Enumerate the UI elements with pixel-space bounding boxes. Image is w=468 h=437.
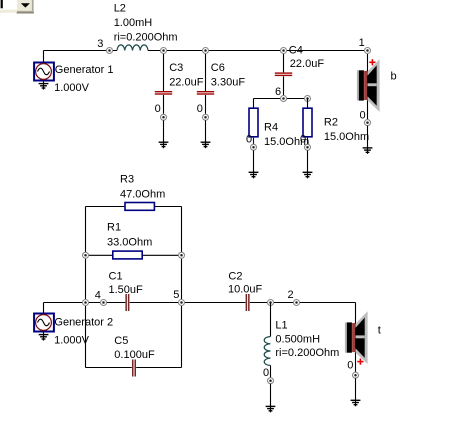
generator 2 (source symbol) [34, 314, 54, 332]
wire bus C1 to C2 [130, 302, 246, 304]
inductor L1 coil [264, 337, 270, 366]
capacitor C1 plates [125, 294, 129, 311]
junction node (R1 left rail) [83, 252, 89, 258]
svg-text:Generator 2: Generator 2 [54, 317, 113, 329]
wire speaker t column [355, 303, 357, 372]
ground (C6) [201, 140, 211, 148]
wire R4 bottom stub [253, 138, 255, 145]
junction node (L1 top) [268, 300, 274, 306]
capacitor C6 plates [197, 91, 214, 95]
ground (speaker b) [363, 146, 373, 154]
node 1 pin circle [365, 48, 371, 54]
wire R2 to ground [307, 150, 309, 172]
wire left rail [85, 207, 87, 368]
ground (generator 2) [39, 332, 49, 340]
svg-text:R4: R4 [264, 122, 278, 134]
speaker t icon [345, 311, 368, 364]
wire main bus right segment [148, 50, 368, 52]
svg-text:1.00mH: 1.00mH [114, 17, 153, 29]
wire C6 bottom lead [205, 95, 207, 114]
wire C3 to ground [163, 120, 165, 142]
svg-text:0: 0 [360, 109, 366, 121]
junction node (C4 / main bus) [281, 48, 287, 54]
resistor R2 body [303, 108, 312, 137]
junction node (C6 / main bus) [203, 48, 209, 54]
wire C3 bottom lead [163, 95, 165, 114]
svg-text:47.0Ohm: 47.0Ohm [120, 188, 165, 200]
wire bus gen2 to C1 [44, 302, 126, 304]
wire C5 right lead [136, 367, 181, 369]
resistor R1 body [113, 251, 142, 259]
wire R2 bottom stub [307, 138, 309, 145]
wire speaker t to ground [355, 378, 357, 400]
wire L1 bottom lead [270, 365, 272, 377]
svg-text:22.0uF: 22.0uF [290, 58, 325, 70]
svg-text:2: 2 [288, 289, 294, 301]
svg-text:0: 0 [155, 103, 161, 115]
capacitor C4 plates [275, 72, 292, 76]
svg-text:4: 4 [95, 290, 101, 302]
svg-text:R2: R2 [324, 117, 338, 129]
node 5 junction circle [179, 300, 185, 306]
junction node (C3 / main bus) [161, 48, 167, 54]
svg-text:0: 0 [263, 367, 269, 379]
svg-text:L1: L1 [275, 319, 287, 331]
svg-text:3: 3 [97, 38, 103, 50]
ground (R4) [249, 170, 259, 178]
capacitor C5 plates [132, 360, 136, 377]
node 0 pin (R2 bottom) [305, 144, 311, 150]
node 0 pin (speaker b bottom) [365, 120, 371, 126]
svg-text:22.0uF: 22.0uF [169, 76, 204, 88]
wire C4 bottom lead [283, 76, 285, 96]
wire L1 to ground [270, 384, 272, 407]
svg-text:1.50uF: 1.50uF [109, 284, 144, 296]
generator 1 (source symbol) [34, 63, 54, 81]
wire main bus left segment [44, 50, 118, 52]
wire R3 left lead [86, 206, 125, 208]
wire speaker b to ground [367, 126, 369, 148]
wire C5 left lead [86, 367, 132, 369]
node 0 pin (R4 bottom) [251, 144, 257, 150]
wire C6 to ground [205, 120, 207, 142]
svg-text:Generator 1: Generator 1 [55, 64, 114, 76]
capacitor C3 plates [155, 91, 172, 95]
svg-text:C2: C2 [228, 271, 242, 283]
resistor R3 body [125, 203, 154, 211]
speaker b icon [357, 59, 380, 112]
svg-text:R3: R3 [120, 174, 134, 186]
wire C6 top lead [205, 51, 207, 92]
svg-text:C5: C5 [114, 335, 128, 347]
svg-text:L2: L2 [114, 3, 126, 15]
wire bus C2 to speaker t [250, 302, 356, 304]
wire C4 top lead [283, 51, 285, 73]
wire speaker b column [367, 51, 369, 120]
svg-text:t: t [378, 324, 381, 336]
svg-text:3.30uF: 3.30uF [211, 76, 246, 88]
svg-text:0: 0 [246, 134, 252, 146]
wire right rail [181, 207, 183, 368]
svg-text:0.500mH: 0.500mH [275, 334, 320, 346]
node 0 pin (C3 bottom) [161, 114, 167, 120]
node 6 junction circle [281, 96, 287, 102]
pin circle (C1 left) [101, 300, 107, 306]
svg-text:15.0Ohm: 15.0Ohm [324, 131, 369, 143]
wire R4 to ground [253, 150, 255, 172]
resistor R4 body [249, 108, 258, 137]
wire R2 top stub [307, 99, 309, 108]
ground (L1) [266, 404, 276, 412]
wire C3 top lead [163, 51, 165, 92]
svg-text:33.0Ohm: 33.0Ohm [107, 236, 152, 248]
svg-text:C6: C6 [211, 62, 225, 74]
wire node-6 row [254, 98, 308, 100]
svg-text:5: 5 [173, 289, 179, 301]
capacitor C2 plates [246, 294, 250, 311]
svg-text:0: 0 [197, 103, 203, 115]
node 4 junction circle [83, 300, 89, 306]
svg-text:1: 1 [359, 37, 365, 49]
svg-text:ri=0.200Ohm: ri=0.200Ohm [275, 347, 339, 359]
svg-text:0: 0 [300, 134, 306, 146]
wire R1 left lead [86, 254, 113, 256]
node 2 pin circle [294, 300, 300, 306]
junction node (R1 right rail) [179, 252, 185, 258]
wire L1 top lead [270, 303, 272, 337]
inductor L2 coil [117, 45, 148, 51]
ground (R2) [303, 170, 313, 178]
svg-text:1.000V: 1.000V [54, 335, 90, 347]
wire R4 top stub [253, 99, 255, 108]
svg-text:0.100uF: 0.100uF [114, 349, 155, 361]
svg-text:1.000V: 1.000V [54, 82, 90, 94]
node 0 pin (speaker t bottom) [353, 372, 359, 378]
combobox (clipped page-number selector) [0, 0, 34, 14]
wire R3 right lead [155, 206, 182, 208]
svg-text:C4: C4 [289, 45, 303, 57]
wire gen2 to bus [43, 303, 45, 314]
node 0 pin (C6 bottom) [203, 114, 209, 120]
ground (generator 1) [39, 81, 49, 89]
svg-text:C3: C3 [169, 62, 183, 74]
wire gen1 to main bus [43, 51, 45, 63]
node 0 pin (L1 bottom) [268, 378, 274, 384]
svg-text:b: b [391, 71, 397, 83]
svg-text:ri=0.200Ohm: ri=0.200Ohm [114, 31, 178, 43]
svg-text:C1: C1 [109, 271, 123, 283]
ground (C3) [159, 140, 169, 148]
svg-text:0: 0 [347, 360, 353, 372]
wire R1 right lead [143, 254, 182, 256]
svg-text:6: 6 [275, 86, 281, 98]
node 3 pin circle [107, 48, 113, 54]
pin circle (R2 top) [305, 96, 311, 102]
svg-text:10.0uF: 10.0uF [228, 284, 263, 296]
svg-text:R1: R1 [107, 222, 121, 234]
ground (speaker t) [351, 398, 361, 406]
